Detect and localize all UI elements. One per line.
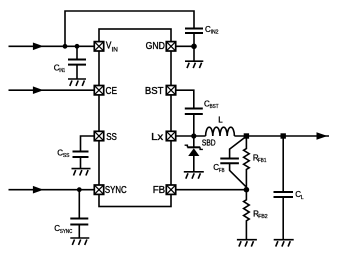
svg-text:Lx: Lx <box>151 132 163 143</box>
svg-text:FB1: FB1 <box>258 158 266 164</box>
svg-text:SYNC: SYNC <box>105 185 127 196</box>
svg-text:CE: CE <box>106 86 118 97</box>
svg-text:SBD: SBD <box>202 138 216 147</box>
svg-text:GND: GND <box>146 41 165 52</box>
svg-text:FB2: FB2 <box>258 214 268 220</box>
svg-text:L: L <box>218 115 223 124</box>
svg-text:IN1: IN1 <box>59 68 65 74</box>
svg-text:BST: BST <box>145 86 164 97</box>
svg-text:IN: IN <box>112 47 118 54</box>
svg-text:FB: FB <box>153 185 166 196</box>
svg-text:BST: BST <box>210 104 220 110</box>
svg-text:FB: FB <box>219 168 225 174</box>
svg-text:SYNC: SYNC <box>60 229 72 235</box>
svg-text:IN2: IN2 <box>211 29 219 35</box>
svg-text:SS: SS <box>63 153 70 159</box>
svg-text:L: L <box>301 195 304 201</box>
svg-text:SS: SS <box>106 132 117 143</box>
